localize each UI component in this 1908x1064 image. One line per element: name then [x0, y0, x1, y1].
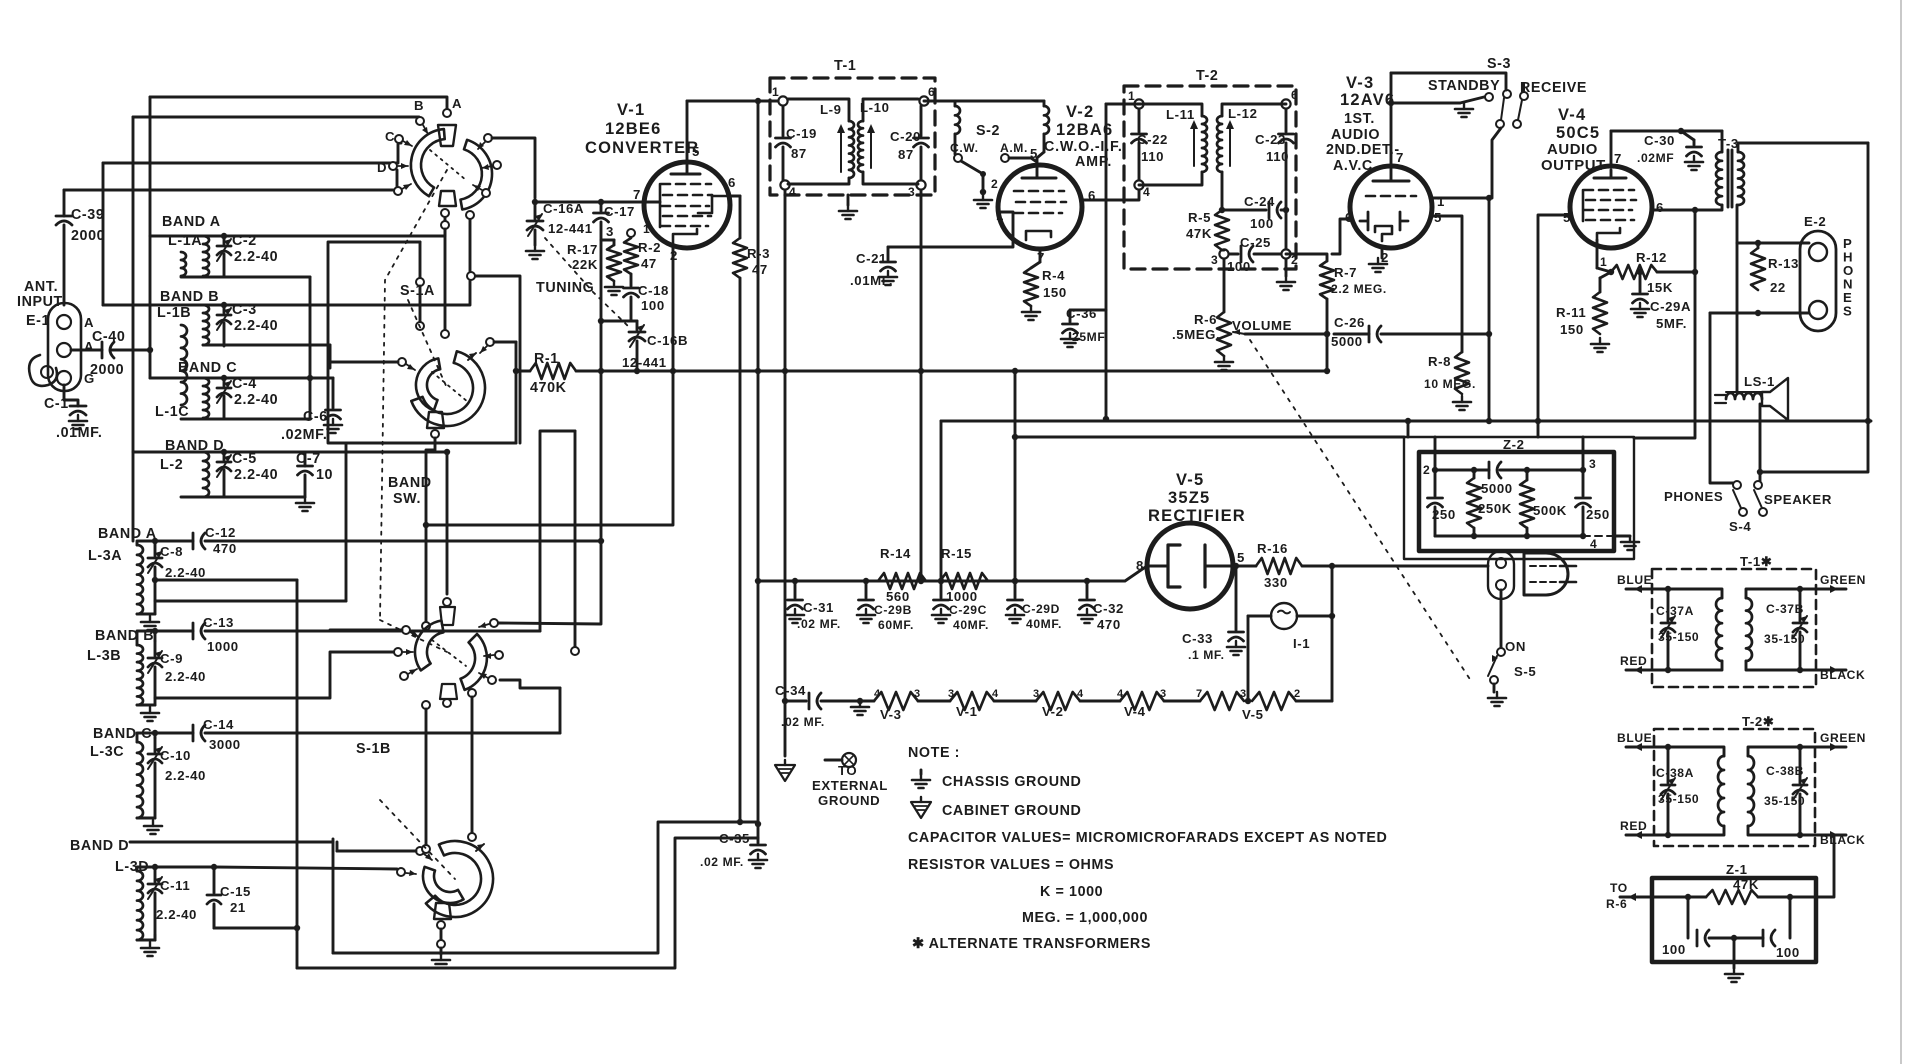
svg-text:T-2✱: T-2✱ [1742, 714, 1775, 729]
contact S1B2 a [416, 847, 432, 860]
alternate transformer T-2 box [1654, 729, 1815, 846]
ground below C-30 [1685, 156, 1703, 170]
capacitor C-40 [71, 329, 150, 378]
wire band3B trim [154, 631, 157, 641]
wire vertical x310 [309, 277, 312, 419]
AVC bus wire left [516, 370, 530, 373]
contact S1B1 g [479, 673, 496, 684]
ground L-3D [137, 939, 155, 942]
coil L-3A [88, 526, 157, 614]
wire T-2 inner bottom right [1221, 172, 1224, 210]
wire x297 to C-15 [214, 927, 297, 930]
svg-text:SPEAKER: SPEAKER [1764, 492, 1832, 507]
svg-text:3: 3 [908, 185, 915, 199]
wire T-2 inner top [1139, 104, 1202, 116]
resistor R-14 [878, 546, 926, 604]
svg-text:L-9: L-9 [820, 102, 842, 117]
junction x310 C [307, 375, 313, 381]
wire band3B mid [155, 652, 394, 698]
contact A [443, 109, 451, 117]
svg-text:C-16A: C-16A [543, 201, 584, 216]
svg-text:4: 4 [1590, 537, 1597, 551]
dashed tuning link [545, 238, 630, 328]
wire V-4 pin6 plate [1652, 209, 1695, 212]
junction x921 b [918, 578, 924, 584]
svg-text:47K: 47K [1186, 226, 1212, 241]
wire S1A2 bottom [426, 438, 435, 621]
wire V-3 pin7 to S-3 [1391, 73, 1506, 90]
Z-2 terminal 2 [1432, 467, 1438, 473]
svg-text:GROUND: GROUND [818, 793, 880, 808]
svg-text:110: 110 [1266, 149, 1289, 164]
svg-text:C-14: C-14 [203, 717, 234, 732]
Z-2 cap 5000 [1489, 462, 1501, 478]
contact S1B1 a [402, 626, 419, 637]
contact G [482, 161, 501, 170]
T-2# black wire down [1816, 835, 1834, 897]
svg-text:2.2-40: 2.2-40 [234, 392, 278, 408]
svg-text:2.2-40: 2.2-40 [165, 565, 206, 580]
svg-text:R-6: R-6 [1606, 897, 1627, 911]
junction band A [221, 233, 227, 239]
coil L-1B secondary [181, 325, 187, 405]
capacitor C-39 [56, 190, 105, 305]
svg-text:150: 150 [1560, 322, 1584, 337]
junction AVC x785 [782, 368, 788, 374]
svg-text:L-2: L-2 [160, 457, 183, 473]
svg-text:4: 4 [874, 688, 881, 700]
trimmer C-9 [148, 641, 206, 705]
svg-text:S: S [1843, 304, 1852, 319]
svg-text:R-2: R-2 [638, 240, 661, 255]
svg-text:15K: 15K [1647, 280, 1673, 295]
Z-2 cap 250 left [1434, 470, 1437, 496]
junction band3B [152, 628, 158, 634]
switch S-3 [1428, 56, 1587, 128]
contact band B riser [466, 211, 474, 219]
contact C [395, 135, 412, 146]
svg-text:6: 6 [928, 85, 935, 99]
wire bus D [64, 170, 397, 190]
svg-text:330: 330 [1264, 575, 1288, 590]
resistor R-7 [1286, 254, 1387, 371]
wire speaker bottom [1759, 404, 1762, 481]
junction x921 avc [918, 368, 924, 374]
trimmer C-4 [217, 376, 278, 419]
capacitor C-6 [281, 378, 341, 443]
junction band C [221, 375, 227, 381]
junction y867 [211, 864, 217, 870]
svg-text:V-1: V-1 [956, 704, 978, 719]
contact H [473, 185, 490, 197]
wire V-3 pin6 left [1332, 219, 1350, 254]
svg-text:.02 MF.: .02 MF. [700, 855, 744, 869]
wire V-4 pin7 top [1611, 130, 1722, 133]
wire V-1 pin6 to R-3 [728, 195, 740, 198]
svg-text:INPUT: INPUT [17, 294, 63, 310]
contact rotor lower [441, 330, 449, 338]
svg-text:R-14: R-14 [880, 546, 911, 561]
capacitor C-15 [155, 867, 251, 928]
svg-text:.02 MF.: .02 MF. [781, 715, 825, 729]
contact S1B1 d [443, 598, 451, 606]
wire screen into loop [1537, 421, 1540, 437]
switch S-5 [1488, 648, 1536, 684]
junction x758 B+ [755, 578, 761, 584]
wire T-1 inner top [788, 99, 849, 121]
ground S-3 standby [1455, 103, 1473, 117]
svg-text:3000: 3000 [209, 737, 241, 752]
trimmer C-38B [1764, 744, 1807, 838]
junction band D [221, 449, 227, 455]
ground below R-8 [1453, 396, 1471, 410]
ground below C-21 [879, 271, 897, 285]
svg-text:4: 4 [992, 688, 999, 700]
resistor R-8 [1424, 352, 1476, 394]
svg-text:C-34: C-34 [775, 683, 806, 698]
svg-text:R-15: R-15 [941, 546, 972, 561]
svg-text:5: 5 [1237, 550, 1245, 565]
svg-text:S-4: S-4 [1729, 519, 1751, 534]
svg-text:3: 3 [914, 688, 921, 700]
svg-text:2: 2 [1294, 688, 1301, 700]
svg-text:V-4: V-4 [1558, 106, 1586, 124]
svg-text:V-2: V-2 [1066, 103, 1094, 121]
contact D [389, 162, 408, 170]
contact S1A2 bottom [431, 430, 439, 438]
wire E-2 bottom [1710, 312, 1809, 315]
svg-text:150: 150 [1043, 285, 1067, 300]
svg-text:4: 4 [1117, 688, 1124, 700]
rotor bottom contacts [441, 209, 449, 217]
svg-text:C: C [385, 129, 395, 144]
svg-text:V-3: V-3 [1346, 74, 1374, 92]
wire L-3D bottom right [154, 935, 157, 940]
svg-text:3: 3 [948, 688, 955, 700]
capacitor C-17 [594, 202, 635, 371]
svg-text:T-3: T-3 [1718, 136, 1739, 151]
junction x1695 r12 [1692, 269, 1698, 275]
contact link x420 bot [416, 322, 424, 330]
trimmer C-37B [1764, 586, 1807, 673]
wire S1B2 a stub [336, 842, 339, 851]
svg-text:MEG. = 1,000,000: MEG. = 1,000,000 [1022, 910, 1148, 926]
heater V-3 [874, 688, 921, 722]
potentiometer R-6 volume [1172, 312, 1292, 356]
svg-text:AUDIO: AUDIO [1331, 127, 1380, 143]
svg-text:2: 2 [1423, 463, 1430, 477]
junction screen bus [1535, 418, 1541, 424]
wire S1B1 left a [330, 629, 402, 632]
wire BAND D lead [130, 841, 333, 844]
junction R-1/C-16B [634, 368, 640, 374]
coil L-1A coupling [181, 252, 186, 276]
ground below C-6 [324, 419, 342, 433]
wire heater seg3 [1080, 700, 1120, 703]
dashed band switch shaft [380, 170, 447, 620]
heater V-4 [1117, 688, 1167, 719]
svg-text:CONVERTER: CONVERTER [585, 139, 699, 157]
coil L-1A [162, 214, 221, 276]
tube V-5 35Z5 rectifier [1136, 471, 1246, 609]
wire left vertical 2 [132, 117, 135, 541]
junction C-17 bottom [598, 318, 604, 324]
svg-text:C-38B: C-38B [1766, 764, 1804, 778]
contact S1A2 right [480, 338, 494, 353]
wire S-2 AM to V-2 pin5 [1009, 158, 1037, 162]
svg-text:25MF.: 25MF. [1072, 330, 1108, 344]
wire C-6 top [310, 377, 333, 380]
terminal T-1 pin6 [919, 96, 928, 105]
speaker LS-1 [1715, 374, 1788, 420]
trimmer C-38A [1656, 744, 1699, 838]
T-2 GREEN lead [1800, 746, 1846, 749]
svg-text:Z-1: Z-1 [1726, 862, 1748, 877]
svg-text:T-1✱: T-1✱ [1740, 554, 1773, 569]
tube V-3 12AV6 [1326, 73, 1445, 265]
T-2 BLUE lead [1626, 746, 1668, 749]
svg-text:250: 250 [1586, 507, 1610, 522]
capacitor C-22 [1132, 109, 1168, 180]
wire C-36 to x1106 [1070, 309, 1106, 312]
svg-text:5000: 5000 [1331, 334, 1363, 349]
trimmer C-2 [217, 233, 278, 277]
svg-text:5: 5 [692, 144, 700, 159]
svg-text:5MF.: 5MF. [1656, 316, 1687, 331]
svg-text:40MF.: 40MF. [953, 618, 989, 632]
svg-text:RED: RED [1620, 819, 1647, 833]
svg-text:87: 87 [898, 147, 914, 162]
svg-text:12AV6: 12AV6 [1340, 91, 1395, 109]
wire T-1 pin4 down [784, 190, 787, 756]
svg-text:40MF.: 40MF. [1026, 617, 1062, 631]
dashed shaft to wafer3 [380, 620, 447, 652]
wire band A top to switch [224, 213, 445, 236]
pilot lamp I-1 [1248, 603, 1335, 651]
capacitor C-29B [859, 578, 914, 632]
svg-text:4: 4 [1077, 688, 1084, 700]
Z-1 wire right [1790, 896, 1816, 899]
wire Z-2 loop to bus [1407, 421, 1410, 437]
Z-2 junction 500K [1524, 467, 1530, 473]
wire T-2 pin3 down [1223, 259, 1226, 312]
svg-text:.1 MF.: .1 MF. [1188, 648, 1225, 662]
svg-text:.02MF.: .02MF. [281, 427, 328, 443]
svg-text:EXTERNAL: EXTERNAL [812, 778, 888, 793]
heater V-2 [1033, 688, 1084, 719]
power feed left [940, 421, 943, 581]
Z-2 junction 250K [1471, 467, 1477, 473]
T-2 primary coil [1718, 756, 1724, 826]
svg-text:2.2-40: 2.2-40 [234, 318, 278, 334]
svg-text:C-37B: C-37B [1766, 602, 1804, 616]
junction x1015 [1012, 578, 1018, 584]
svg-text:C-21: C-21 [856, 251, 887, 266]
Z-1 center junction [1731, 935, 1737, 941]
contact F [478, 134, 492, 149]
contact S1B1 c [400, 669, 417, 680]
Z-2 cap 250 right [1582, 470, 1585, 496]
svg-text:E-2: E-2 [1804, 214, 1826, 229]
power line [1332, 565, 1488, 568]
svg-text:110: 110 [1141, 149, 1164, 164]
rotary switch S-1A wafer 1 [411, 125, 492, 210]
junction band D riser [444, 449, 450, 455]
ground below C-16A [526, 245, 544, 259]
antenna jack E-1 [17, 279, 95, 391]
Z-2 bottom wire [1435, 535, 1583, 538]
svg-text:C-20: C-20 [890, 129, 921, 144]
contact R-2 top [627, 229, 635, 237]
svg-text:35-150: 35-150 [1658, 792, 1699, 806]
svg-text:12-441: 12-441 [622, 355, 667, 370]
svg-text:7: 7 [633, 187, 641, 202]
dashed shaft wafer2 [408, 300, 447, 388]
T-1 GREEN lead [1800, 588, 1846, 591]
T-1 BLUE lead [1626, 588, 1668, 591]
svg-text:35-150: 35-150 [1658, 630, 1699, 644]
capacitor C-36 [1063, 306, 1108, 344]
trimmer C-3 [217, 302, 278, 346]
coil L-1B [157, 289, 219, 345]
junction bus y421 right [1865, 418, 1871, 424]
capacitor C-7 [296, 451, 333, 497]
interlock socket [1488, 551, 1514, 599]
wire band D row top [133, 451, 447, 454]
ground below R-11 [1591, 338, 1609, 352]
staircase left outer [332, 839, 335, 953]
svg-text:S-2: S-2 [976, 123, 1000, 139]
svg-text:C-29C: C-29C [949, 603, 987, 617]
wire x1695 down [1634, 210, 1695, 438]
svg-text:2.2-40: 2.2-40 [234, 249, 278, 265]
switch S-2 [950, 123, 1028, 208]
ground below C-1 [69, 415, 87, 429]
trimmer C-5 [217, 451, 278, 497]
wire speaker top [1736, 243, 1739, 392]
wire C-26 to bus [1488, 334, 1491, 421]
svg-text:22K: 22K [572, 257, 598, 272]
capacitor C-29C [934, 578, 989, 632]
svg-text:60MF.: 60MF. [878, 618, 914, 632]
staircase inner [297, 838, 758, 968]
coil L-11 [1166, 107, 1207, 172]
coil L-12 [1217, 106, 1258, 172]
junction R-13 top [1755, 240, 1761, 246]
junction plate x1695 [1692, 207, 1698, 213]
wire C-34 left lead [785, 700, 806, 703]
svg-text:C-13: C-13 [203, 615, 234, 630]
trimmer C-37A [1656, 586, 1699, 673]
resistor R-12 [1611, 250, 1695, 295]
wire S1A2 left [330, 345, 398, 362]
junction C-29A [1637, 269, 1643, 275]
wire band3C trim [154, 733, 157, 738]
contact S1A2 left [398, 358, 415, 370]
svg-text:A.M.: A.M. [1000, 141, 1028, 155]
svg-text:C-15: C-15 [220, 884, 251, 899]
wire V-3 pin1 right [1430, 198, 1489, 334]
svg-text:C-40: C-40 [92, 329, 125, 345]
svg-text:L-12: L-12 [1228, 106, 1258, 121]
coupling coil AM [1043, 101, 1046, 106]
svg-text:K = 1000: K = 1000 [1040, 884, 1103, 900]
trimmer C-10 [148, 738, 206, 818]
svg-text:RED: RED [1620, 654, 1647, 668]
wire S1B2 down [440, 929, 443, 940]
heater wire left [796, 700, 806, 703]
long vertical bus x758 [757, 101, 760, 581]
svg-text:R-8: R-8 [1428, 354, 1451, 369]
contact B [416, 117, 428, 134]
svg-text:1ST.: 1ST. [1344, 111, 1375, 127]
wire power right vertical [1331, 566, 1334, 701]
rotary switch S-1A wafer 2 [411, 351, 485, 428]
svg-text:C-29A: C-29A [1650, 299, 1691, 314]
svg-text:E-1: E-1 [26, 313, 50, 329]
svg-text:C-29D: C-29D [1022, 602, 1060, 616]
junction heater feed [782, 698, 788, 704]
screw terminal [825, 753, 856, 767]
wire C-18 bottom link [601, 320, 637, 323]
svg-text:CHASSIS GROUND: CHASSIS GROUND [942, 774, 1081, 790]
wire T-2 inner bottom left [1139, 172, 1202, 185]
svg-text:C-30: C-30 [1644, 133, 1675, 148]
svg-text:1: 1 [1437, 194, 1445, 209]
note cabinet ground symbol [911, 797, 931, 818]
ground below C-31 [786, 609, 804, 623]
svg-text:GREEN: GREEN [1820, 573, 1866, 587]
svg-text:ON: ON [1505, 639, 1526, 654]
contact S1B2 d [437, 940, 445, 948]
svg-text:RECEIVE: RECEIVE [1520, 80, 1587, 96]
T-2 secondary coil [1748, 756, 1754, 826]
bus y421 [941, 420, 1871, 423]
contact E [394, 184, 411, 195]
wire lower net h3 [155, 600, 346, 603]
wire antenna top bus [150, 97, 447, 108]
capacitor C-29A [1633, 272, 1692, 331]
svg-text:C-31: C-31 [803, 600, 834, 615]
wire S1B2 a lead [337, 850, 416, 853]
junction y580 [152, 577, 158, 583]
trimmer C-8 [148, 541, 206, 614]
wire C-21 to V-2 pin1 [888, 212, 1013, 247]
wire S1A2 right riser [494, 341, 516, 344]
ground below S-5 [1493, 684, 1496, 692]
terminal T-2 pin2 [1281, 249, 1290, 258]
svg-text:470: 470 [213, 541, 237, 556]
svg-text:100: 100 [641, 298, 665, 313]
switch S-4 [1664, 481, 1832, 534]
tube V-4 50C5 audio output [1541, 106, 1664, 272]
Z-1 lead TO R-6 [1620, 896, 1688, 899]
wire band3C top [137, 733, 193, 742]
svg-text:1: 1 [996, 208, 1004, 223]
svg-text:560: 560 [886, 589, 910, 604]
contact box [467, 272, 475, 280]
wire S-3 standby ground lead [1391, 102, 1460, 105]
terminal T-2 pin3 [1219, 249, 1228, 258]
ground below C-29B [857, 609, 875, 623]
wire S-3 rotor down [1492, 128, 1501, 198]
svg-text:R-16: R-16 [1257, 541, 1288, 556]
svg-text:LS-1: LS-1 [1744, 374, 1775, 389]
tube V-1 12BE6 converter [585, 101, 736, 371]
svg-text:250K: 250K [1478, 501, 1512, 516]
ground below C-29D [1006, 609, 1024, 623]
svg-text:2.2-40: 2.2-40 [234, 467, 278, 483]
